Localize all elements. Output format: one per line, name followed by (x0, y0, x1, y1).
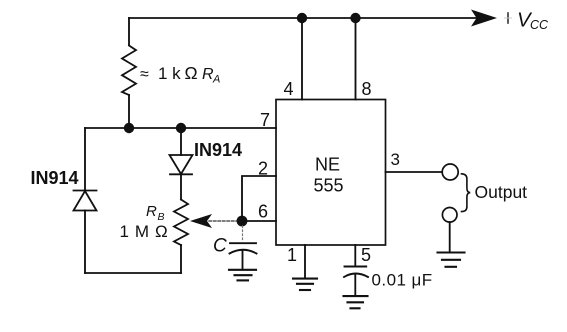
wire middle between diode and RB (180, 174, 182, 199)
svg-text:0.01 μF: 0.01 μF (372, 271, 433, 290)
svg-text:8: 8 (362, 79, 372, 99)
junction dot pin8 rail (350, 13, 360, 23)
svg-text:1 k: 1 k (158, 64, 181, 83)
capacitor 0.01uF (344, 267, 368, 278)
junction dot pin4 rail (297, 13, 307, 23)
wire pin 5 (354, 245, 356, 266)
svg-text:1: 1 (287, 245, 297, 265)
wire pin 8 (355, 18, 357, 100)
wire RA top lead (128, 18, 130, 45)
wiper arrow into RB (190, 214, 237, 228)
op IC NE555 U1 (276, 100, 386, 246)
svg-text:3: 3 (391, 150, 400, 169)
label NE 555 (314, 155, 344, 196)
svg-text:R: R (146, 203, 157, 220)
wire RA bottom lead (128, 95, 130, 128)
wire left branch lower (84, 211, 86, 274)
wire pin 1 to ground (304, 245, 306, 278)
output terminal circle bottom (442, 208, 457, 223)
resistor RB (174, 200, 188, 246)
label +Vcc (505, 9, 550, 33)
wire pin 3 output (386, 171, 442, 173)
svg-text:Output: Output (475, 182, 528, 202)
junction dot at diode branch (176, 123, 186, 133)
svg-text:IN914: IN914 (31, 168, 79, 188)
svg-text:CC: CC (530, 18, 549, 32)
wire C to ground (242, 251, 244, 270)
ground under C (229, 270, 256, 281)
wire left branch down (84, 128, 86, 191)
wire main horizontal to pin 7 (85, 127, 276, 129)
wire cap to ground (354, 274, 356, 296)
svg-text:IN914: IN914 (194, 140, 242, 160)
wire junction to capacitor C (faint) (242, 226, 244, 242)
svg-text:1 M Ω: 1 M Ω (120, 222, 169, 241)
capacitor C (230, 243, 257, 253)
svg-text:NE: NE (315, 155, 340, 175)
svg-text:A: A (212, 74, 220, 86)
junction dot wiper/pin6/C (237, 216, 248, 227)
svg-text:2: 2 (258, 159, 268, 179)
output brace (462, 174, 471, 212)
ground under 0.01uF (344, 296, 368, 308)
label 1 kOhm RA (140, 63, 220, 86)
diode D2 IN914 (pointing down) (170, 155, 193, 174)
wire bottom connecting (85, 272, 181, 274)
svg-text:5: 5 (361, 245, 371, 265)
svg-text:Ω: Ω (185, 63, 198, 83)
junction dot at RA bottom (124, 123, 134, 133)
wire middle branch upper (180, 128, 182, 155)
wire pin 2 (242, 176, 276, 221)
label RB (120, 203, 169, 241)
output terminal circle top (442, 164, 458, 180)
ground under pin 1 (293, 279, 317, 290)
ground under output (438, 253, 465, 267)
svg-text:6: 6 (258, 202, 268, 222)
svg-text:7: 7 (260, 110, 270, 130)
Vcc arrow (471, 10, 497, 27)
svg-text:≈: ≈ (140, 66, 149, 83)
wire RB bottom lead (180, 245, 182, 273)
wire pin 6 (242, 220, 276, 222)
wire pin 4 (301, 18, 303, 100)
svg-text:4: 4 (284, 79, 294, 99)
svg-text:555: 555 (314, 176, 344, 196)
resistor RA (122, 46, 136, 96)
wire output to ground (449, 222, 451, 252)
wire top Vcc rail (129, 17, 477, 19)
diode D1 IN914 (pointing up) (74, 191, 97, 211)
svg-text:C: C (213, 236, 227, 257)
